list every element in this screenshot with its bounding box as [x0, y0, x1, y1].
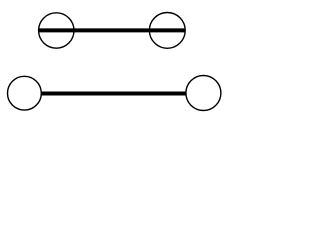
top-left circle	[39, 13, 74, 48]
bottom-right circle	[186, 76, 221, 111]
bottom-left circle	[8, 76, 42, 110]
top bar through both circles	[38, 28, 185, 32]
bottom bar between circles	[41, 92, 186, 96]
top-right circle	[149, 13, 185, 49]
